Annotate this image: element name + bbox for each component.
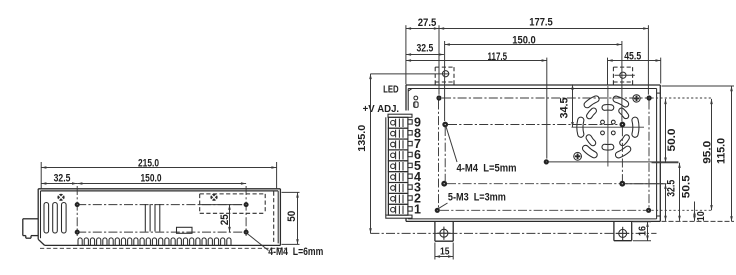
side view screw right	[210, 194, 217, 201]
dimension 15 (tab width)	[435, 243, 453, 260]
label 4-M4 L=6mm (side view) with leader	[248, 234, 324, 258]
side view mounting holes 4-M4	[75, 202, 249, 235]
svg-text:215.0: 215.0	[138, 157, 159, 169]
dimension 25 (side view hole spacing vertical)	[199, 205, 242, 233]
base mounting holes 5-M3	[435, 95, 652, 212]
fan grille	[580, 99, 636, 155]
dimension 32.5 (side view)	[41, 173, 77, 185]
dimension 135.0 (left of top view)	[356, 74, 372, 234]
label 4-M4 L=5mm with leader	[446, 127, 517, 175]
top view chassis body outline	[406, 85, 660, 221]
side view chassis body outline	[38, 189, 285, 249]
tab screw centerline	[370, 232, 656, 234]
svg-text:5-M3 L=3mm: 5-M3 L=3mm	[448, 191, 506, 203]
svg-text:50.5: 50.5	[680, 175, 692, 198]
side view ventilation slots	[44, 203, 66, 234]
svg-text:50.0: 50.0	[666, 129, 678, 152]
svg-text:34.5: 34.5	[558, 98, 570, 119]
dimension 117.5	[406, 51, 547, 159]
dimension 34.5 (fan center)	[558, 84, 574, 127]
label 5-M3 L=3mm with leader	[439, 191, 506, 208]
dimension 50 (side view height)	[282, 192, 300, 244]
fan centerlines	[572, 86, 645, 167]
svg-text:117.5: 117.5	[488, 51, 508, 63]
cover screw near fan top-right	[633, 95, 640, 102]
cover screw near fan bottom-left	[574, 152, 582, 160]
side view hidden cover outline (dashed)	[200, 192, 274, 244]
svg-text:16: 16	[636, 226, 648, 236]
side view AC inlet protrusion	[23, 219, 38, 238]
svg-text:177.5: 177.5	[529, 17, 553, 29]
left mounting bracket (dashed, hidden)	[370, 67, 454, 85]
right mounting bracket (dashed, hidden)	[613, 67, 634, 85]
dimension 10 (right side)	[693, 202, 707, 222]
svg-text:32.5: 32.5	[417, 43, 434, 55]
dimension 215.0 (side view overall length)	[41, 157, 276, 189]
svg-text:10: 10	[695, 211, 707, 221]
+V ADJ potentiometer	[414, 102, 418, 108]
svg-text:15: 15	[440, 246, 450, 258]
bottom mounting tab right	[614, 221, 632, 240]
dimension 95.0 (right side)	[702, 99, 714, 210]
dimension 32.5 (right side)	[626, 180, 678, 221]
label +V ADJ.	[363, 104, 400, 115]
dimension 115.0 (right side)	[662, 86, 735, 221]
svg-text:115.0: 115.0	[716, 138, 728, 164]
dimension 150.0 (side view hole spacing)	[77, 173, 246, 185]
side view bottom vent louvres	[78, 238, 231, 245]
svg-text:LED: LED	[383, 85, 399, 96]
svg-text:50: 50	[286, 211, 298, 222]
svg-text:95.0: 95.0	[702, 141, 714, 164]
side view hidden internal line / hole centerline	[77, 186, 246, 236]
dimension 50.5 (right side)	[678, 163, 692, 221]
svg-text:27.5: 27.5	[418, 17, 437, 29]
base hole centerlines (dash-dot)	[439, 98, 712, 210]
terminal block (9 screw terminals)	[385, 111, 412, 219]
dimension 27.5	[406, 17, 439, 95]
dimension 45.5	[608, 51, 661, 85]
side view screw left	[57, 194, 64, 201]
svg-text:32.5: 32.5	[666, 180, 678, 197]
svg-text:150.0: 150.0	[512, 34, 536, 46]
svg-text:135.0: 135.0	[356, 125, 368, 152]
svg-text:+V ADJ.: +V ADJ.	[363, 104, 400, 115]
dimension 177.5	[439, 17, 648, 95]
label LED	[383, 85, 399, 96]
dimension 16 (tab height)	[633, 222, 651, 241]
svg-text:1: 1	[414, 203, 421, 217]
svg-text:25: 25	[219, 214, 231, 225]
svg-text:4-M4 L=6mm: 4-M4 L=6mm	[268, 246, 323, 258]
bottom mounting tab left	[435, 221, 453, 241]
terminal numbers 9..1	[414, 116, 421, 217]
dimension 50.0 (right side)	[652, 99, 679, 163]
svg-text:4-M4 L=5mm: 4-M4 L=5mm	[457, 163, 517, 175]
svg-text:45.5: 45.5	[624, 51, 641, 63]
dimension 150.0	[445, 34, 622, 121]
svg-text:32.5: 32.5	[54, 173, 71, 185]
dimension 32.5 top	[406, 43, 444, 56]
base mounting holes 4-M4	[441, 122, 625, 187]
svg-text:150.0: 150.0	[141, 173, 162, 185]
LED indicator hole	[414, 96, 418, 100]
side view internal component (transformer)	[145, 204, 192, 233]
